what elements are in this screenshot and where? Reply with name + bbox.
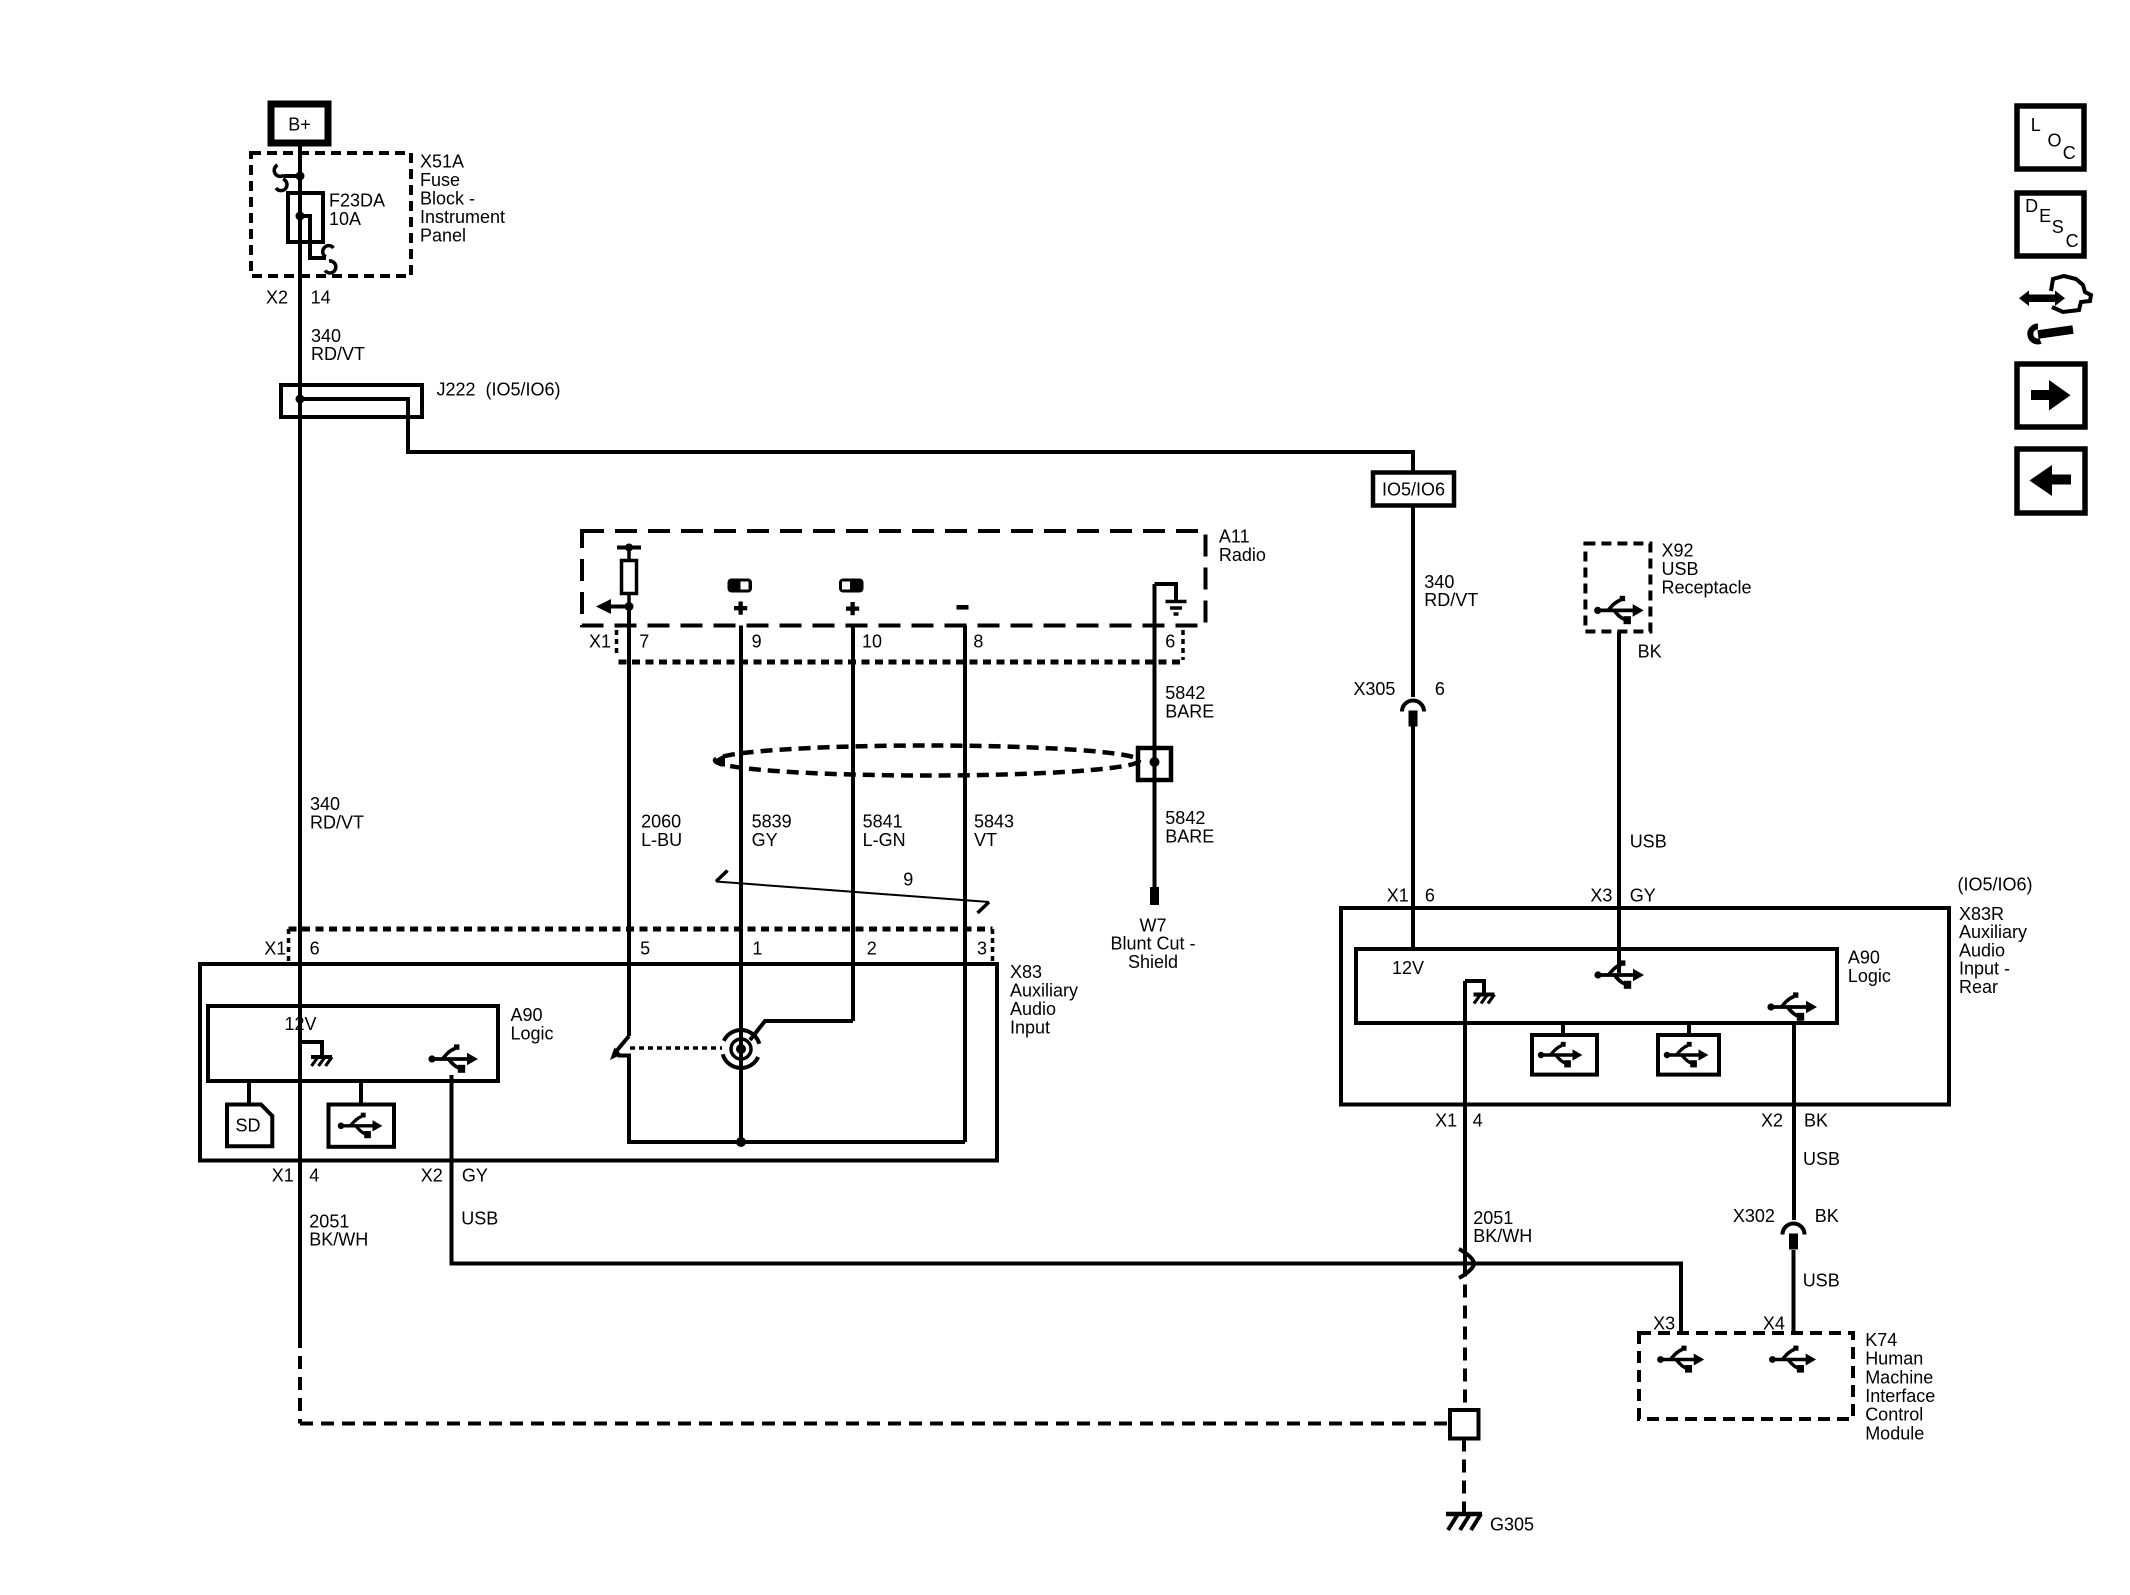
svg-text:340: 340 [311, 326, 341, 346]
svg-text:340: 340 [310, 794, 340, 814]
svg-text:Logic: Logic [1848, 966, 1891, 986]
svg-text:X3: X3 [1590, 886, 1612, 906]
svg-text:GY: GY [462, 1166, 488, 1186]
svg-text:6: 6 [310, 939, 320, 959]
svg-text:BK/WH: BK/WH [1473, 1226, 1532, 1246]
svg-text:SD: SD [235, 1116, 260, 1136]
svg-text:3: 3 [977, 939, 987, 959]
svg-text:L-GN: L-GN [863, 830, 906, 850]
svg-text:(IO5/IO6): (IO5/IO6) [1958, 875, 2033, 895]
svg-text:X1: X1 [1387, 886, 1409, 906]
svg-text:5843: 5843 [974, 812, 1014, 832]
svg-text:4: 4 [309, 1166, 319, 1186]
svg-text:USB: USB [1662, 559, 1699, 579]
svg-text:W7: W7 [1140, 915, 1167, 935]
svg-text:Auxiliary: Auxiliary [1959, 922, 2027, 942]
svg-text:X83: X83 [1010, 962, 1042, 982]
svg-text:Machine: Machine [1865, 1367, 1933, 1387]
svg-text:Fuse: Fuse [420, 170, 460, 190]
svg-text:6: 6 [1165, 632, 1175, 652]
svg-text:1: 1 [752, 939, 762, 959]
svg-text:S: S [2052, 217, 2064, 237]
svg-text:BK: BK [1638, 641, 1662, 661]
svg-text:A90: A90 [511, 1005, 543, 1025]
svg-text:Audio: Audio [1959, 940, 2005, 960]
svg-text:X2: X2 [1761, 1110, 1783, 1130]
svg-text:Shield: Shield [1128, 952, 1178, 972]
svg-text:A11: A11 [1219, 527, 1250, 547]
svg-text:Radio: Radio [1219, 545, 1266, 565]
svg-text:Module: Module [1865, 1423, 1924, 1443]
svg-text:4: 4 [1473, 1110, 1483, 1130]
svg-text:X305: X305 [1353, 679, 1395, 699]
svg-text:RD/VT: RD/VT [311, 344, 365, 364]
svg-text:X1: X1 [589, 632, 611, 652]
svg-text:Human: Human [1865, 1349, 1923, 1369]
svg-text:Block -: Block - [420, 189, 475, 209]
svg-text:C: C [2066, 231, 2079, 251]
svg-text:Input: Input [1010, 1017, 1050, 1037]
svg-text:340: 340 [1424, 572, 1454, 592]
svg-text:Input -: Input - [1959, 959, 2010, 979]
svg-text:X51A: X51A [420, 152, 464, 172]
svg-text:J222 (IO5/IO6): J222 (IO5/IO6) [437, 379, 561, 399]
svg-text:2: 2 [867, 939, 877, 959]
svg-text:USB: USB [1803, 1149, 1840, 1169]
svg-text:5: 5 [640, 939, 650, 959]
svg-text:X83R: X83R [1959, 904, 2004, 924]
svg-text:G305: G305 [1490, 1514, 1534, 1534]
svg-text:GY: GY [752, 830, 778, 850]
svg-text:Auxiliary: Auxiliary [1010, 981, 1078, 1001]
svg-text:10: 10 [862, 632, 882, 652]
svg-text:7: 7 [639, 632, 649, 652]
svg-text:L-BU: L-BU [641, 830, 682, 850]
svg-text:8: 8 [973, 632, 983, 652]
svg-text:IO5/IO6: IO5/IO6 [1382, 480, 1445, 500]
svg-text:A90: A90 [1848, 948, 1880, 968]
svg-text:BARE: BARE [1165, 827, 1214, 847]
svg-text:X2: X2 [266, 288, 288, 308]
svg-text:Audio: Audio [1010, 999, 1056, 1019]
svg-text:BK: BK [1815, 1206, 1839, 1226]
svg-text:X3: X3 [1653, 1314, 1675, 1334]
svg-text:X1: X1 [264, 939, 286, 959]
svg-text:Interface: Interface [1865, 1386, 1935, 1406]
svg-text:D: D [2025, 196, 2038, 216]
svg-text:K74: K74 [1865, 1330, 1897, 1350]
svg-text:5842: 5842 [1165, 683, 1205, 703]
svg-text:12V: 12V [1392, 958, 1424, 978]
svg-text:9: 9 [903, 869, 913, 889]
svg-text:BARE: BARE [1165, 701, 1214, 721]
svg-text:X2: X2 [421, 1166, 443, 1186]
svg-text:2060: 2060 [641, 812, 681, 832]
svg-text:X4: X4 [1763, 1314, 1785, 1334]
svg-text:Rear: Rear [1959, 977, 1998, 997]
svg-text:O: O [2048, 131, 2062, 151]
svg-text:5839: 5839 [752, 812, 792, 832]
svg-text:RD/VT: RD/VT [310, 812, 364, 832]
svg-text:Panel: Panel [420, 225, 466, 245]
svg-text:5842: 5842 [1165, 808, 1205, 828]
svg-text:12V: 12V [285, 1014, 317, 1034]
svg-text:Logic: Logic [511, 1024, 554, 1044]
svg-text:USB: USB [1630, 832, 1667, 852]
svg-text:GY: GY [1630, 886, 1656, 906]
svg-text:Control: Control [1865, 1405, 1923, 1425]
svg-text:BK/WH: BK/WH [309, 1230, 368, 1250]
svg-text:F23DA: F23DA [329, 191, 385, 211]
svg-text:USB: USB [1803, 1271, 1840, 1291]
svg-text:X302: X302 [1733, 1206, 1775, 1226]
svg-text:E: E [2039, 206, 2051, 226]
svg-text:VT: VT [974, 830, 997, 850]
svg-text:10A: 10A [329, 209, 361, 229]
svg-text:Blunt Cut -: Blunt Cut - [1110, 934, 1195, 954]
svg-text:Instrument: Instrument [420, 207, 505, 227]
svg-text:BK: BK [1804, 1110, 1828, 1130]
svg-text:14: 14 [311, 288, 331, 308]
svg-text:USB: USB [461, 1208, 498, 1228]
svg-text:2051: 2051 [1473, 1208, 1513, 1228]
svg-text:6: 6 [1435, 679, 1445, 699]
svg-text:C: C [2063, 143, 2076, 163]
svg-text:L: L [2031, 115, 2041, 135]
svg-text:RD/VT: RD/VT [1424, 590, 1478, 610]
svg-text:X92: X92 [1662, 541, 1694, 561]
svg-text:2051: 2051 [309, 1211, 349, 1231]
svg-text:6: 6 [1425, 886, 1435, 906]
svg-text:5841: 5841 [863, 812, 903, 832]
svg-text:X1: X1 [1435, 1110, 1457, 1130]
svg-text:9: 9 [752, 632, 762, 652]
svg-text:Receptacle: Receptacle [1662, 577, 1752, 597]
svg-text:X1: X1 [272, 1166, 294, 1186]
svg-text:B+: B+ [288, 114, 311, 134]
